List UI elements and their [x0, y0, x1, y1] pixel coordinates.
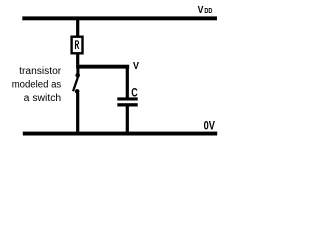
- resistor R1 (box symbol): [72, 37, 83, 54]
- svg-text:V: V: [133, 61, 139, 72]
- svg-text:transistor: transistor: [19, 66, 62, 77]
- wire: short segment from junction down to switch top contact: [76, 68, 79, 73]
- value label R: [75, 41, 79, 50]
- wire: 0V bottom rail: [23, 132, 217, 136]
- wire: from resistor down to node junction: [76, 54, 79, 65]
- svg-text:0V: 0V: [204, 119, 215, 133]
- wire: from top rail down to resistor R: [76, 20, 79, 36]
- switch bottom contact dot: [75, 89, 80, 94]
- svg-text:DD: DD: [204, 8, 212, 15]
- wire: from capacitor bottom plate down to 0V rail: [126, 106, 129, 132]
- wire: from switch bottom contact down to 0V rail: [76, 93, 79, 132]
- capacitor C1 top plate: [117, 97, 137, 100]
- svg-text:modeled as: modeled as: [12, 80, 62, 91]
- svg-text:a switch: a switch: [24, 93, 62, 104]
- wire: horizontal branch from junction to capacitor branch (node V): [76, 65, 129, 69]
- wire: from node V corner down to capacitor top plate: [126, 66, 129, 98]
- wire: VDD top supply rail: [22, 16, 217, 20]
- capacitor C1 bottom plate: [117, 103, 137, 106]
- svg-text:V: V: [198, 5, 204, 16]
- switch top contact dot: [75, 73, 80, 78]
- switch lever (transistor modeled as a switch): [73, 76, 78, 92]
- svg-text:C: C: [131, 86, 138, 100]
